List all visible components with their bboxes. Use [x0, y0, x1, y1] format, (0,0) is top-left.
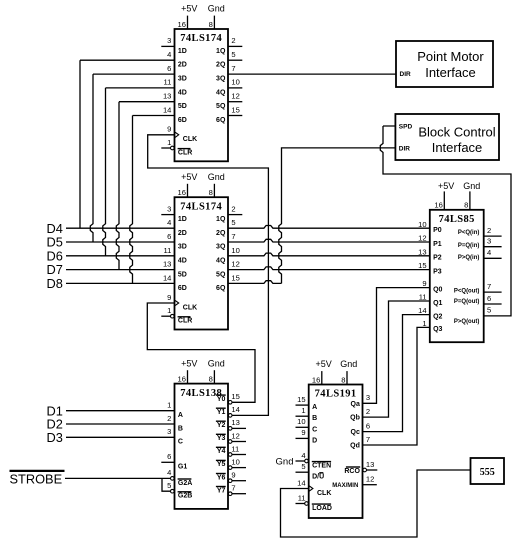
- svg-text:Gnd: Gnd: [340, 359, 357, 369]
- U1 74LS174 pin 7 (3Q) right: [216, 64, 236, 83]
- U5 74LS191 pin 9 (D) left: [296, 428, 318, 444]
- U1 74LS174 pin 10 (4Q) right: [216, 78, 242, 97]
- svg-text:7: 7: [231, 232, 235, 241]
- U3 74LS138 pin 15 (Y0) right: [216, 392, 240, 404]
- U2 74LS174 pin 11 (4D) left: [164, 246, 187, 265]
- svg-text:12: 12: [231, 260, 239, 269]
- svg-text:Qb: Qb: [350, 415, 360, 422]
- U2 74LS174 part number label: [180, 201, 222, 212]
- wire D1 input to U3 A: [66, 410, 175, 412]
- svg-text:A: A: [312, 404, 317, 411]
- svg-text:4: 4: [301, 451, 305, 460]
- U5 74LS191 +5V pin 16: [312, 359, 332, 384]
- svg-text:DIR: DIR: [399, 145, 411, 152]
- svg-text:7: 7: [231, 484, 235, 493]
- wire U5 Qa to U4 Q0: [363, 288, 430, 404]
- U3 74LS138 pin 4 (G2A) left: [167, 468, 192, 487]
- svg-text:A: A: [178, 412, 183, 419]
- wire U2 3Q to U4 P1: [228, 239, 430, 242]
- svg-text:8: 8: [341, 375, 345, 384]
- svg-text:6Q: 6Q: [216, 117, 226, 124]
- svg-text:2: 2: [366, 407, 370, 416]
- svg-text:9: 9: [167, 293, 171, 302]
- net label D2: [47, 417, 63, 432]
- svg-text:2Q: 2Q: [216, 62, 226, 69]
- svg-text:2: 2: [231, 204, 235, 213]
- U3 74LS138 +5V pin 16: [178, 358, 198, 383]
- U1 74LS174 part number label: [180, 33, 222, 44]
- U1 74LS174 pin 5 (2Q) right: [216, 50, 242, 69]
- svg-text:Gnd: Gnd: [208, 172, 225, 182]
- svg-text:P1: P1: [433, 241, 442, 248]
- svg-text:D7: D7: [47, 262, 63, 277]
- U5 74LS191 body outline: [309, 385, 363, 519]
- IC U4 74LS85: [418, 181, 501, 342]
- wire U1 pin 6 branch to D5: [90, 74, 174, 242]
- svg-text:1D: 1D: [178, 216, 187, 223]
- U1 74LS174 pin 11 (4D) left: [164, 78, 187, 97]
- net label D5: [47, 235, 63, 250]
- U5 74LS191 pin 3 (Qa) right: [351, 393, 371, 408]
- U2 74LS174 pin 7 (3Q) right: [216, 232, 236, 251]
- U4 74LS85 pin 6 (P=Q(out)) right: [454, 294, 502, 305]
- svg-text:G2B: G2B: [178, 493, 192, 500]
- svg-text:11: 11: [419, 293, 427, 302]
- U2 74LS174 pin 13 (5D) left: [163, 260, 187, 279]
- U4 74LS85 pin 14 (Q2) left: [418, 306, 442, 320]
- svg-text:P>Q(in): P>Q(in): [458, 255, 480, 261]
- svg-text:LOAD: LOAD: [312, 505, 332, 512]
- svg-text:16: 16: [178, 20, 186, 29]
- U2 74LS174 pin 12 (5Q) right: [216, 260, 240, 279]
- svg-text:13: 13: [418, 247, 426, 256]
- wire U1 pin 4 branch to D4: [80, 60, 175, 228]
- svg-text:15: 15: [231, 274, 239, 283]
- svg-text:P2: P2: [433, 255, 442, 262]
- U4 74LS85 pin 4 (P>Q(in)) right: [458, 248, 502, 261]
- net label D3: [47, 430, 63, 445]
- U1 74LS174 pin 13 (5D) left: [163, 92, 187, 111]
- U4 74LS85 pin 15 (P3) left: [418, 261, 442, 275]
- svg-text:12: 12: [231, 92, 239, 101]
- U4 74LS85 pin 12 (P1) left: [418, 234, 442, 248]
- wire Block Control SPD to U4 pin 5: [380, 126, 511, 316]
- svg-text:7: 7: [231, 64, 235, 73]
- svg-text:Gnd: Gnd: [208, 4, 225, 14]
- U5 74LS191 Gnd pin 8: [340, 359, 357, 384]
- svg-text:15: 15: [231, 392, 239, 401]
- svg-text:15: 15: [297, 395, 305, 404]
- svg-text:6D: 6D: [178, 117, 187, 124]
- U2 74LS174 pin 4 (2D) left: [167, 218, 187, 237]
- svg-text:6: 6: [167, 452, 171, 461]
- svg-text:14: 14: [163, 105, 171, 114]
- U5 74LS191 pin 15 (A) left: [296, 395, 318, 411]
- svg-text:1: 1: [167, 401, 171, 410]
- svg-text:16: 16: [178, 374, 186, 383]
- svg-text:16: 16: [434, 201, 442, 210]
- U3 74LS138 body outline: [175, 384, 229, 509]
- IC U1 74LS174: [161, 4, 242, 162]
- Point Motor Interface box: [396, 41, 493, 87]
- U4 74LS85 +5V pin 16: [434, 181, 454, 210]
- U5 74LS191 pin 7 (Qd) right: [350, 435, 370, 450]
- U1 74LS174 Gnd pin 8: [208, 4, 225, 29]
- svg-text:CLK: CLK: [317, 490, 331, 497]
- svg-text:8: 8: [209, 374, 213, 383]
- svg-text:1: 1: [301, 406, 305, 415]
- svg-text:CLR: CLR: [178, 149, 192, 156]
- U3 74LS138 pin 11 (Y4) right: [216, 444, 246, 456]
- svg-text:C: C: [178, 439, 183, 446]
- svg-text:G1: G1: [178, 464, 187, 471]
- U5 74LS191 pin 4 (CTEN) left: [296, 451, 332, 470]
- U1 74LS174 pin 9 (CLK) left: [167, 125, 197, 144]
- svg-text:5Q: 5Q: [216, 271, 226, 278]
- U4 74LS85 pin 7 (P<Q(out)) right: [454, 282, 502, 294]
- wire D6 input to U2 pin 11: [66, 255, 175, 257]
- svg-text:5: 5: [301, 462, 305, 471]
- svg-text:74LS191: 74LS191: [315, 389, 357, 400]
- svg-text:6: 6: [167, 64, 171, 73]
- svg-text:11: 11: [164, 246, 172, 255]
- svg-text:9: 9: [231, 471, 235, 480]
- U5 74LS191 pin 12 (MAX/MIN) right: [332, 475, 377, 489]
- U2 74LS174 pin 9 (CLK) left: [167, 293, 197, 312]
- U2 74LS174 pin 5 (2Q) right: [216, 218, 236, 237]
- svg-text:11: 11: [231, 444, 239, 453]
- svg-text:1: 1: [167, 306, 171, 315]
- U4 74LS85 Gnd pin 8: [463, 181, 480, 210]
- U5 74LS191 pin 13 (RCO) right: [344, 460, 377, 475]
- U3 74LS138 pin 13 (Y2) right: [216, 418, 246, 430]
- U2 74LS174 Gnd pin 8: [208, 172, 225, 197]
- svg-text:1Q: 1Q: [216, 216, 226, 223]
- U4 74LS85 pin 5 (P>Q(out)) right: [454, 306, 491, 325]
- svg-text:12: 12: [418, 234, 426, 243]
- svg-text:P>Q(out): P>Q(out): [454, 319, 480, 325]
- svg-text:4: 4: [167, 468, 171, 477]
- svg-text:D3: D3: [47, 430, 63, 445]
- U3 74LS138 pin 3 (C) left: [167, 427, 183, 446]
- svg-text:3: 3: [167, 36, 171, 45]
- U5 74LS191 pin 6 (Qc) right: [351, 421, 371, 436]
- svg-text:12: 12: [366, 475, 374, 484]
- svg-text:13: 13: [163, 260, 171, 269]
- svg-text:5: 5: [487, 306, 491, 315]
- svg-text:Interface: Interface: [425, 65, 476, 80]
- svg-text:74LS85: 74LS85: [439, 214, 475, 225]
- svg-text:13: 13: [231, 418, 239, 427]
- svg-text:5: 5: [231, 50, 235, 59]
- wire U5 Qd to U4 Q3: [363, 327, 430, 445]
- svg-text:3Q: 3Q: [216, 76, 226, 83]
- U1 74LS174 pin 14 (6D) left: [163, 105, 187, 124]
- svg-text:9: 9: [422, 279, 426, 288]
- wire D3 input to U3 C: [66, 436, 175, 438]
- svg-text:Y2: Y2: [217, 422, 226, 429]
- svg-text:P0: P0: [433, 227, 442, 234]
- svg-text:D: D: [312, 437, 317, 444]
- svg-text:Y6: Y6: [217, 474, 226, 481]
- IC U2 74LS174: [161, 172, 242, 330]
- svg-text:1D: 1D: [178, 48, 187, 55]
- svg-text:9: 9: [301, 428, 305, 437]
- svg-text:4: 4: [167, 50, 171, 59]
- Block Control Interface box: [395, 114, 499, 160]
- svg-text:5D: 5D: [178, 271, 187, 278]
- U4 74LS85 pin 1 (Q3) left: [422, 319, 442, 333]
- U1 74LS174 pin 15 (6Q) right: [216, 105, 242, 124]
- wire D2 input to U3 B: [66, 423, 175, 425]
- svg-text:Point Motor: Point Motor: [417, 49, 484, 64]
- svg-text:D8: D8: [47, 276, 63, 291]
- 555 timer box: [471, 458, 505, 484]
- svg-text:C: C: [312, 426, 317, 433]
- svg-text:CLK: CLK: [183, 136, 197, 143]
- svg-text:Interface: Interface: [432, 140, 483, 155]
- svg-text:13: 13: [163, 92, 171, 101]
- svg-text:15: 15: [418, 261, 426, 270]
- svg-text:14: 14: [163, 274, 171, 283]
- U2 74LS174 pin 6 (3D) left: [167, 232, 187, 251]
- svg-text:P<Q(out): P<Q(out): [454, 288, 480, 294]
- U5 74LS191 pin 14 (CLK) left: [297, 478, 331, 497]
- svg-text:2: 2: [487, 226, 491, 235]
- svg-text:8: 8: [464, 201, 468, 210]
- svg-text:9: 9: [167, 125, 171, 134]
- svg-text:CTEN: CTEN: [312, 462, 331, 469]
- svg-text:8: 8: [209, 188, 213, 197]
- U1 74LS174 pin 3 (1D) left: [161, 36, 187, 55]
- svg-text:14: 14: [297, 478, 305, 487]
- svg-text:P=Q(out): P=Q(out): [454, 299, 480, 305]
- svg-text:DIR: DIR: [400, 71, 412, 78]
- svg-text:10: 10: [418, 220, 426, 229]
- U4 74LS85 pin 3 (P=Q(in)) right: [458, 237, 502, 249]
- svg-text:3: 3: [366, 393, 370, 402]
- U5 74LS191 pin 5 (D/U) left: [296, 462, 325, 481]
- U5 74LS191 pin 11 (LOAD) left: [296, 493, 332, 512]
- U3 74LS138 pin 7 (Y7) right: [216, 484, 246, 496]
- U3 74LS138 pin 14 (Y1) right: [216, 405, 240, 417]
- wire U2 5Q to U4 P3: [228, 267, 430, 270]
- svg-text:10: 10: [231, 457, 239, 466]
- svg-text:5Q: 5Q: [216, 103, 226, 110]
- U2 74LS174 pin 1 (CLR) left: [161, 306, 192, 325]
- svg-text:4Q: 4Q: [216, 258, 226, 265]
- svg-text:10: 10: [231, 246, 239, 255]
- wire U1 pin 11 branch to D6: [103, 88, 175, 256]
- wire U1 pin 14 branch to D8: [130, 116, 175, 284]
- svg-text:+5V: +5V: [438, 181, 454, 191]
- svg-text:Q2: Q2: [433, 313, 442, 320]
- svg-text:6: 6: [366, 421, 370, 430]
- U4 74LS85 pin 13 (P2) left: [418, 247, 442, 261]
- svg-text:8: 8: [209, 20, 213, 29]
- svg-text:D6: D6: [47, 248, 63, 263]
- net label D4: [47, 221, 63, 236]
- U5 74LS191 pin 10 (C) left: [296, 417, 318, 433]
- svg-text:CLK: CLK: [183, 304, 197, 311]
- U2 74LS174 pin 15 (6Q) right: [216, 274, 240, 293]
- U1 74LS174 +5V pin 16: [178, 4, 198, 29]
- wire U2 2Q to U4 P0: [228, 226, 430, 229]
- svg-text:3D: 3D: [178, 76, 187, 83]
- svg-text:Block Control: Block Control: [418, 125, 495, 140]
- U3 74LS138 part number label: [180, 388, 222, 399]
- svg-text:Gnd: Gnd: [208, 358, 225, 368]
- U4 74LS85 pin 10 (P0) left: [418, 220, 442, 234]
- svg-text:Y0: Y0: [217, 396, 226, 403]
- U3 74LS138 pin 9 (Y6) right: [216, 471, 246, 483]
- wire U5 Qb to U4 Q1: [363, 301, 430, 417]
- svg-text:74LS174: 74LS174: [180, 201, 222, 212]
- svg-text:3Q: 3Q: [216, 244, 226, 251]
- wire U1 3Q to Point Motor DIR: [228, 73, 396, 75]
- svg-text:+5V: +5V: [181, 172, 197, 182]
- svg-text:Q3: Q3: [433, 326, 442, 333]
- svg-text:74LS174: 74LS174: [180, 33, 222, 44]
- svg-text:10: 10: [297, 417, 305, 426]
- svg-text:G2A: G2A: [178, 480, 192, 487]
- svg-text:6: 6: [487, 294, 491, 303]
- svg-text:1Q: 1Q: [216, 48, 226, 55]
- wire STROBE branch to U3 G2B: [162, 478, 170, 491]
- svg-text:14: 14: [418, 306, 426, 315]
- U5 74LS191 pin 1 (B) left: [296, 406, 318, 422]
- net label STROBE (active low): [10, 471, 65, 486]
- U3 74LS138 pin 5 (G2B) left: [167, 481, 192, 500]
- svg-text:CLR: CLR: [178, 318, 192, 325]
- svg-text:11: 11: [298, 493, 306, 502]
- svg-text:+5V: +5V: [181, 4, 197, 14]
- svg-text:3: 3: [167, 427, 171, 436]
- U2 74LS174 +5V pin 16: [178, 172, 198, 197]
- U3 74LS138 pin 6 (G1) left: [161, 452, 187, 471]
- svg-text:15: 15: [231, 105, 239, 114]
- svg-text:7: 7: [366, 435, 370, 444]
- IC U5 74LS191: [296, 359, 378, 518]
- wire D5 input to U2 pin 6: [66, 241, 175, 243]
- svg-text:1: 1: [422, 319, 426, 328]
- svg-text:D4: D4: [47, 221, 63, 236]
- svg-text:Y7: Y7: [217, 487, 226, 494]
- svg-text:555: 555: [480, 467, 495, 478]
- Gnd label at U5 CTEN: [276, 457, 294, 468]
- svg-text:1: 1: [167, 138, 171, 147]
- U2 74LS174 pin 10 (4Q) right: [216, 246, 240, 265]
- svg-text:Y1: Y1: [217, 409, 226, 416]
- net label D1: [47, 403, 63, 418]
- IC U3 74LS138: [161, 358, 246, 509]
- svg-text:Qc: Qc: [351, 429, 360, 436]
- svg-text:Gnd: Gnd: [276, 457, 294, 468]
- svg-text:+5V: +5V: [315, 359, 331, 369]
- net label D6: [47, 248, 63, 263]
- svg-text:SPD: SPD: [399, 124, 413, 131]
- U1 74LS174 pin 4 (2D) left: [167, 50, 187, 69]
- svg-text:Y4: Y4: [217, 448, 226, 455]
- svg-text:Y3: Y3: [217, 435, 226, 442]
- svg-text:3: 3: [487, 237, 491, 246]
- net label D7: [47, 262, 63, 277]
- svg-text:3D: 3D: [178, 244, 187, 251]
- U5 74LS191 part number label: [315, 389, 357, 400]
- wire D7 input to U2 pin 13: [66, 269, 175, 271]
- svg-text:Q1: Q1: [433, 300, 442, 307]
- svg-text:7: 7: [487, 282, 491, 291]
- U4 74LS85 part number label: [439, 214, 475, 225]
- wire U3 Y0 to U2 CLK: [147, 303, 255, 402]
- U1 74LS174 pin 2 (1Q) right: [216, 36, 242, 55]
- svg-text:13: 13: [366, 460, 374, 469]
- svg-text:MAX/MIN: MAX/MIN: [332, 483, 358, 489]
- svg-text:16: 16: [178, 188, 186, 197]
- svg-text:11: 11: [164, 78, 172, 87]
- U1 74LS174 body outline: [175, 29, 229, 161]
- svg-text:5: 5: [231, 218, 235, 227]
- svg-text:5: 5: [167, 481, 171, 490]
- svg-text:4: 4: [487, 248, 491, 257]
- svg-text:4: 4: [167, 218, 171, 227]
- svg-text:STROBE: STROBE: [10, 471, 63, 486]
- U4 74LS85 body outline: [430, 210, 484, 342]
- wire U1 pin 13 branch to D7: [116, 102, 174, 270]
- svg-text:10: 10: [231, 78, 239, 87]
- U1 74LS174 pin 12 (5Q) right: [216, 92, 242, 111]
- U2 74LS174 body outline: [175, 197, 229, 329]
- svg-text:2D: 2D: [178, 62, 187, 69]
- svg-text:B: B: [312, 415, 317, 422]
- svg-text:Qd: Qd: [350, 443, 360, 450]
- wire U5 Qc to U4 Q2: [363, 315, 430, 432]
- svg-text:6: 6: [167, 232, 171, 241]
- svg-text:6Q: 6Q: [216, 285, 226, 292]
- svg-text:4D: 4D: [178, 89, 187, 96]
- svg-text:6D: 6D: [178, 285, 187, 292]
- svg-text:16: 16: [312, 375, 320, 384]
- wire U2 6Q to Block Control DIR: [228, 148, 395, 284]
- wire U2 4Q to U4 P2: [228, 253, 430, 256]
- svg-text:4D: 4D: [178, 258, 187, 265]
- svg-text:12: 12: [231, 431, 239, 440]
- U3 74LS138 pin 2 (B) left: [167, 414, 183, 433]
- U3 74LS138 pin 12 (Y3) right: [216, 431, 246, 443]
- svg-text:+5V: +5V: [181, 358, 197, 368]
- U4 74LS85 pin 11 (Q1) left: [419, 293, 443, 307]
- svg-text:P=Q(in): P=Q(in): [458, 243, 480, 249]
- wire U3 Y1 to U1 CLK: [148, 135, 269, 416]
- svg-text:Gnd: Gnd: [463, 181, 480, 191]
- svg-text:RCO: RCO: [344, 468, 360, 475]
- svg-text:P<Q(in): P<Q(in): [458, 230, 480, 236]
- svg-text:14: 14: [231, 405, 239, 414]
- svg-text:Y5: Y5: [217, 461, 226, 468]
- svg-text:2Q: 2Q: [216, 230, 226, 237]
- svg-text:2: 2: [231, 36, 235, 45]
- svg-text:4Q: 4Q: [216, 89, 226, 96]
- svg-text:2D: 2D: [178, 230, 187, 237]
- svg-text:5D: 5D: [178, 103, 187, 110]
- U2 74LS174 pin 14 (6D) left: [163, 274, 187, 293]
- net label D8: [47, 276, 63, 291]
- svg-text:B: B: [178, 425, 183, 432]
- U3 74LS138 Gnd pin 8: [208, 358, 225, 383]
- svg-text:2: 2: [167, 414, 171, 423]
- U5 74LS191 pin 2 (Qb) right: [350, 407, 370, 422]
- wire D4 input to U2 pin 4: [66, 227, 175, 229]
